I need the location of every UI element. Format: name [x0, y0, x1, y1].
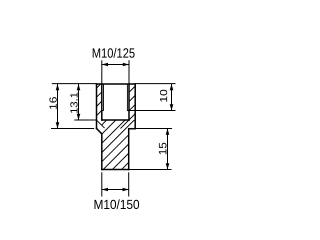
dimension 10 extension	[127, 110, 175, 112]
label 16	[49, 97, 56, 109]
thread end tick	[102, 110, 104, 112]
arrowheads	[56, 63, 174, 192]
M10/150 left arrow	[102, 188, 108, 192]
part outline: top face	[97, 84, 136, 170]
dimension M10/150 extension lines	[101, 172, 103, 196]
dimension 13.1 line	[78, 84, 80, 120]
16 top arrow	[56, 84, 60, 90]
bore right wall	[128, 84, 130, 120]
bottom face	[102, 169, 129, 171]
dimension 16 line	[57, 84, 59, 129]
top face extension right	[135, 83, 175, 85]
left outer wall	[96, 84, 98, 129]
thin extension and dimension lines	[51, 60, 176, 196]
dimension 15 bottom extension	[129, 169, 172, 171]
dimension 15 line	[167, 129, 169, 170]
hatch section lines: sleeve wall bands	[55, 84, 175, 130]
10 top arrow	[170, 84, 174, 90]
16 bottom arrow	[56, 122, 60, 128]
right outer wall	[134, 84, 136, 129]
stem right wall	[128, 129, 130, 170]
label M10/150	[95, 199, 140, 209]
label M10/125	[93, 48, 135, 58]
dimension M10/125 line	[102, 64, 129, 66]
top face extension left	[52, 83, 97, 85]
dimension 16 extension	[51, 128, 94, 130]
15 top arrow	[166, 129, 170, 135]
label 13.1	[70, 93, 77, 113]
dimension 13.1 extension	[74, 119, 96, 121]
label 15	[159, 143, 167, 155]
internal thread line right	[126, 84, 128, 111]
15 bottom arrow	[166, 163, 170, 169]
M10/150 right arrow	[123, 188, 129, 192]
bore bottom	[102, 119, 129, 121]
dimension M10/150 line	[102, 189, 129, 191]
sleeve bottom right face	[129, 128, 135, 130]
thread relief notch edge	[97, 120, 105, 128]
dimension 15 top extension	[135, 128, 172, 130]
10 bottom arrow	[170, 104, 174, 110]
M10/125 left arrow	[102, 63, 108, 67]
hatch section lines: body below bore and stem	[57, 119, 172, 170]
13.1 top arrow	[77, 84, 81, 90]
dimension 10 line	[171, 84, 173, 111]
internal thread line left	[103, 84, 105, 111]
stem left wall	[101, 134, 103, 170]
M10/125 right arrow	[123, 63, 129, 67]
13.1 bottom arrow	[77, 114, 81, 120]
label 10	[160, 90, 167, 102]
sleeve bottom left chamfer	[97, 129, 102, 134]
dimension M10/125 extension lines	[101, 60, 103, 84]
bore left wall	[101, 84, 103, 120]
